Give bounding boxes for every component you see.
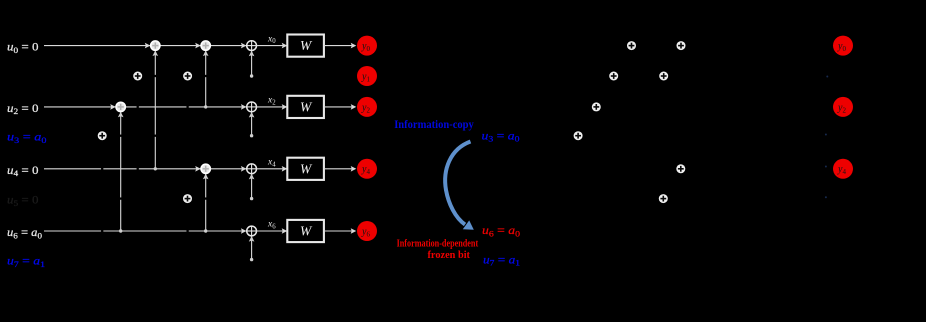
wire vertical u5 to u4 xor	[251, 169, 253, 199]
xor gate u6 stage1	[247, 226, 257, 236]
wire W to y0	[324, 45, 352, 47]
node junction u2	[204, 105, 207, 108]
wire u4 horizontal	[44, 168, 252, 170]
wire vertical u6 to u4 gate	[205, 169, 207, 231]
svg-text:u3 = a0: u3 = a0	[7, 130, 47, 145]
arrow into W row6	[282, 228, 288, 234]
output y1 left	[357, 66, 377, 86]
arrow into y4	[351, 166, 357, 172]
xor gate right u1	[609, 72, 618, 81]
wire vertical u7 to u6 xor	[251, 231, 253, 260]
arrow up into stage1 xor	[249, 51, 255, 57]
output y2 left	[357, 97, 377, 117]
svg-text:u5 = 0: u5 = 0	[7, 193, 39, 208]
output y0 left	[357, 36, 377, 56]
svg-text:u4 = 0: u4 = 0	[7, 163, 39, 178]
wire xor to W row0	[257, 45, 288, 47]
svg-text:u6 = a0: u6 = a0	[482, 223, 520, 238]
svg-text:u7 = a1: u7 = a1	[7, 254, 45, 269]
xor gate u4 stage1	[247, 164, 257, 174]
node junction u5	[250, 197, 253, 200]
svg-text:u6 = a0: u6 = a0	[7, 225, 42, 240]
xor gate u2 stage1	[247, 102, 257, 112]
arrow into u4 stage1 xor	[241, 166, 247, 172]
xor gate right u4	[676, 164, 685, 173]
svg-text:Information-dependent: Information-dependent	[397, 237, 479, 249]
svg-text:Information-copy: Information-copy	[394, 119, 474, 131]
xor gate right u2	[592, 102, 601, 111]
xor gate right u0	[627, 41, 636, 50]
wire W to y2	[324, 106, 352, 108]
channel W row2	[287, 96, 324, 118]
arrow up into stage1 xor	[249, 112, 255, 118]
output y6 left	[357, 221, 377, 241]
output y2 right	[833, 97, 853, 117]
channel W row4	[287, 158, 324, 180]
output y0 right	[833, 36, 853, 56]
wire vertical u1 to u0 xor	[251, 46, 253, 76]
xor gate u5	[183, 194, 192, 203]
arrow into u0 first gate	[145, 43, 151, 49]
svg-text:W: W	[300, 100, 313, 115]
wire crossing gap	[152, 135, 158, 137]
node junction u6	[119, 229, 122, 232]
arrow up into gate	[203, 174, 209, 180]
wire u2 horizontal	[44, 106, 252, 108]
arrow into y2	[351, 104, 357, 110]
xor gate u3	[98, 131, 107, 140]
wire u6 horizontal	[44, 230, 252, 232]
wire u0 horizontal	[44, 45, 252, 47]
wire W to y4	[324, 168, 352, 170]
arrow into u0 second gate	[195, 43, 201, 49]
wire crossing gap	[137, 166, 139, 172]
node speck	[826, 76, 828, 78]
arrow into u6 stage1 xor	[241, 228, 247, 234]
xor gate right u5	[659, 194, 668, 203]
arrow information copy curve	[445, 142, 470, 225]
node junction u7	[250, 258, 253, 261]
wire W to y6	[324, 230, 352, 232]
output y4 right	[833, 159, 853, 179]
node junction u4	[154, 167, 157, 170]
arrow up into stage1 xor	[249, 174, 255, 180]
node speck	[825, 166, 827, 168]
xor gate u0 stage2	[201, 41, 210, 50]
xor gate right u0	[677, 41, 686, 50]
svg-text:W: W	[300, 161, 313, 176]
wire vertical u6 to u2 gate	[120, 107, 122, 231]
svg-text:u2 = 0: u2 = 0	[7, 101, 39, 116]
wire crossing gap	[101, 228, 103, 234]
arrow into u2 first gate	[110, 104, 116, 110]
svg-text:frozen bit: frozen bit	[428, 249, 471, 261]
arrow into W row4	[282, 166, 288, 172]
wire crossing gap	[186, 104, 188, 110]
wire crossing gap	[152, 75, 158, 77]
arrow up into gate	[153, 50, 159, 56]
wire crossing gap	[186, 228, 188, 234]
xor gate right u3	[574, 131, 583, 140]
node speck	[825, 134, 827, 136]
arrow up into gate	[118, 112, 124, 118]
arrow up into gate	[203, 50, 209, 56]
wire vertical u3 to u2 xor	[251, 107, 253, 136]
node speck	[825, 196, 827, 198]
channel W row0	[287, 35, 324, 57]
wire vertical u2 to u0 gate	[205, 46, 207, 107]
svg-text:u0 = 0: u0 = 0	[7, 40, 39, 55]
wire crossing gap	[203, 75, 209, 77]
wire crossing gap	[203, 197, 209, 199]
svg-text:W: W	[300, 38, 313, 53]
xor gate u2 stage3	[116, 102, 125, 111]
arrow into u2 stage1 xor	[241, 104, 247, 110]
wire xor to W row2	[257, 106, 288, 108]
wire crossing gap	[101, 166, 103, 172]
arrow into W row0	[282, 43, 288, 49]
wire vertical u4 to u0 gate	[154, 46, 156, 169]
xor gate u0 stage1	[247, 41, 257, 51]
channel W row6	[287, 220, 324, 242]
arrow up into stage1 xor	[249, 236, 255, 242]
svg-text:u7 = a1: u7 = a1	[483, 252, 520, 267]
xor gate u1 a	[133, 72, 142, 81]
node junction u1	[250, 74, 253, 77]
arrow into y6	[351, 228, 357, 234]
arrow into u4 first gate	[195, 166, 201, 172]
wire xor to W row4	[257, 168, 288, 170]
xor gate u1 b	[183, 72, 192, 81]
wire crossing gap	[118, 197, 124, 199]
arrow into u0 stage1 xor	[241, 43, 247, 49]
output y4 left	[357, 159, 377, 179]
wire xor to W row6	[257, 230, 288, 232]
wire crossing gap	[137, 104, 139, 110]
node junction u6	[204, 229, 207, 232]
arrow into W row2	[282, 104, 288, 110]
xor gate u0 stage3	[151, 41, 160, 50]
svg-text:u3 = a0: u3 = a0	[482, 128, 520, 143]
svg-text:W: W	[300, 224, 313, 239]
wire crossing gap	[118, 135, 124, 137]
xor gate right u1	[659, 72, 668, 81]
node junction u3	[250, 134, 253, 137]
xor gate u4 stage2	[201, 164, 210, 173]
arrow into y0	[351, 43, 357, 49]
